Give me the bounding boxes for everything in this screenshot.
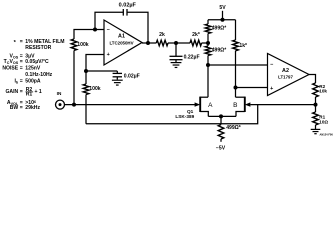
resistor 2k*: [190, 40, 202, 46]
wire between 499s: [207, 34, 209, 47]
svg-text:10k: 10k: [319, 89, 327, 94]
svg-text:100k: 100k: [89, 86, 100, 92]
resistor R1 10ohm: [313, 112, 319, 125]
svg-text:A: A: [208, 102, 213, 109]
wire left ladder top: [207, 20, 209, 24]
transistor Q1A channel bar: [199, 97, 201, 112]
wire + node down to feedback rail: [85, 71, 87, 84]
wire A1 + input: [86, 55, 104, 72]
node A1 + / C2 / 100k: [84, 69, 88, 73]
wire IN node up to A1 inverting input: [73, 51, 75, 105]
op-amp A1 LTC2050HV: [104, 20, 142, 65]
svg-text:TCVOS: TCVOS: [4, 59, 19, 65]
resistor 499ohm (upper): [205, 24, 211, 34]
wire drain A to A2 -: [208, 64, 268, 66]
wire A1 output: [142, 42, 156, 44]
svg-text:0.05µV/°C: 0.05µV/°C: [25, 59, 49, 65]
svg-text:=: =: [20, 65, 23, 71]
svg-text:499Ω*: 499Ω*: [226, 125, 241, 131]
capacitor C1 0.02uF plates: [122, 9, 124, 16]
wire right ladder top: [235, 20, 237, 40]
svg-text:=: =: [20, 89, 23, 95]
node A1 output / C1: [146, 41, 150, 45]
wire C1 left lead: [95, 12, 123, 29]
wire 5V bus: [208, 19, 236, 21]
ground (C2): [112, 79, 123, 81]
resistor 100k (feedback, to A1 +): [83, 84, 89, 95]
wire feedback rail up (to 100k): [85, 123, 87, 125]
wire A2 output: [309, 75, 316, 84]
wire feedback drop: [86, 105, 258, 124]
svg-text:LT1797: LT1797: [278, 74, 293, 79]
svg-text:2k*: 2k*: [192, 32, 200, 38]
node IN/100k junction: [72, 103, 76, 107]
svg-text:−5V: −5V: [216, 145, 226, 151]
wire R2 to node: [315, 97, 317, 105]
node R2/R1 feedback: [314, 103, 318, 107]
resistor R2 10k: [313, 83, 319, 97]
capacitor C2 0.02uF plates: [116, 71, 118, 73]
svg-text:LTC2050HV: LTC2050HV: [109, 40, 133, 45]
ground (C3): [171, 62, 182, 64]
op-amp A2 LT1797: [268, 54, 310, 96]
Q1B source lead: [236, 112, 245, 117]
svg-text:A2: A2: [282, 68, 289, 74]
svg-text:0.22µF: 0.22µF: [184, 55, 200, 61]
transistor Q1B channel bar: [244, 97, 246, 112]
resistor 499ohm (source): [218, 125, 224, 139]
resistor 1k*: [233, 40, 239, 51]
ground (R1): [311, 128, 321, 130]
svg-text:R1: R1: [26, 91, 33, 97]
svg-text:+: +: [270, 86, 273, 92]
node 5V bus: [221, 18, 225, 22]
svg-text:499Ω*: 499Ω*: [212, 25, 227, 31]
svg-text:−: −: [107, 27, 110, 33]
svg-text:+: +: [107, 52, 110, 58]
svg-text:0.02µF: 0.02µF: [119, 2, 137, 8]
svg-text:BW: BW: [10, 105, 19, 111]
Q1B gate arrow: [245, 102, 251, 106]
wire source to resistor: [220, 116, 222, 124]
wire common source: [208, 115, 236, 117]
svg-text:=: =: [20, 59, 23, 65]
svg-text:GAIN: GAIN: [5, 89, 18, 95]
node 2k*/499 junction: [206, 41, 210, 45]
svg-text:−: −: [270, 62, 273, 68]
wire C1 right lead to A1 output: [127, 12, 148, 43]
svg-text:5V: 5V: [219, 5, 226, 11]
svg-text:10Ω: 10Ω: [319, 119, 328, 124]
svg-text:29kHz: 29kHz: [25, 105, 40, 111]
wire R1 to ground: [315, 125, 317, 129]
svg-text:500pA: 500pA: [25, 78, 41, 84]
wire 499 to drain A: [207, 56, 209, 98]
svg-text:=: =: [20, 105, 23, 111]
wire 2k* to ladder: [202, 42, 208, 44]
svg-text:499Ω*: 499Ω*: [212, 48, 227, 54]
svg-text:B: B: [233, 102, 237, 109]
svg-text:LSK-389: LSK-389: [175, 114, 194, 119]
node source junction: [219, 114, 223, 118]
svg-text:AN124 F06: AN124 F06: [320, 132, 334, 136]
capacitor C3 0.22uF: [175, 43, 177, 56]
node A1 inverting input / C1: [93, 28, 97, 32]
svg-text:125nV: 125nV: [25, 65, 41, 71]
svg-text:=: =: [20, 78, 23, 84]
svg-text:0.02µF: 0.02µF: [124, 74, 140, 80]
svg-text:+ 1: + 1: [35, 89, 42, 95]
Q1B drain lead: [236, 96, 245, 98]
resistor 100k (input, to A1 -): [71, 39, 77, 51]
wire to -5V: [220, 139, 222, 142]
resistor 2k: [156, 40, 168, 46]
svg-text:=: =: [20, 39, 23, 45]
node drain B / A2 +: [234, 86, 238, 90]
wire to C2: [86, 70, 117, 72]
resistor 499ohm (lower): [205, 46, 211, 56]
svg-text:IN: IN: [57, 91, 62, 96]
svg-text:2k: 2k: [159, 32, 165, 38]
wire Q1B gate line: [250, 104, 315, 106]
node 0.22uF junction: [174, 41, 178, 45]
wire 5V stub: [222, 11, 224, 20]
svg-text:RESISTOR: RESISTOR: [25, 45, 51, 51]
svg-text:100k: 100k: [77, 42, 88, 48]
svg-text:NOISE: NOISE: [2, 65, 18, 71]
input terminal IN: [56, 100, 65, 109]
Q1A source lead: [200, 112, 208, 117]
Q1A gate arrow: [195, 102, 201, 106]
wire IN to Q1 gate A: [64, 104, 195, 106]
svg-text:0.1Hz-10Hz: 0.1Hz-10Hz: [25, 72, 52, 78]
wire 2k to 2k*: [168, 42, 190, 44]
svg-text:A1: A1: [118, 34, 125, 40]
Q1A drain lead: [200, 96, 208, 98]
wire drain B to A2 +: [236, 87, 268, 89]
svg-text:1k*: 1k*: [239, 43, 247, 49]
wire 1k to drain B: [235, 51, 237, 97]
node drain A / A2 -: [206, 63, 210, 67]
